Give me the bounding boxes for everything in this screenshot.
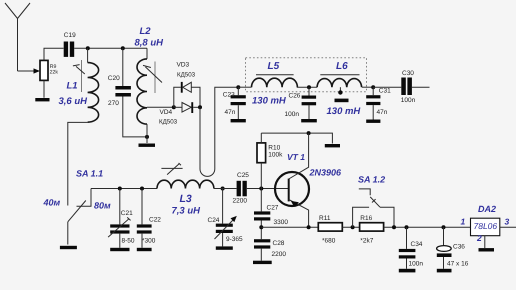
ground under C28: [253, 261, 272, 264]
svg-text:3,6 uH: 3,6 uH: [59, 96, 89, 107]
wire L6 to C31: [362, 86, 373, 88]
svg-text:100n: 100n: [285, 111, 300, 118]
transistor VT1: [275, 133, 342, 227]
svg-text:C20: C20: [108, 75, 120, 82]
wire L2 tap to diodes: [147, 106, 174, 108]
wire hairpin loop to filter: [200, 87, 238, 176]
svg-text:*300: *300: [142, 238, 156, 245]
electrolytic capacitor C36: [437, 227, 469, 269]
capacitor C19: [64, 32, 76, 57]
capacitor C26: [285, 87, 317, 119]
svg-text:47 x 16: 47 x 16: [447, 261, 469, 268]
svg-text:47n: 47n: [225, 109, 236, 116]
svg-text:КД503: КД503: [177, 72, 196, 79]
regulator DA2: [461, 204, 510, 243]
ground under C26: [301, 119, 317, 122]
svg-text:*2k7: *2k7: [360, 238, 373, 245]
capacitor C20: [108, 48, 147, 137]
ground top right of VT1: [325, 144, 340, 147]
node SA1.2 left: [351, 225, 355, 229]
svg-text:C24: C24: [208, 217, 220, 224]
svg-text:130 mH: 130 mH: [252, 96, 287, 107]
svg-text:R10: R10: [268, 144, 280, 151]
capacitor C27: [254, 189, 288, 228]
trimmer capacitor C21: [108, 189, 135, 248]
svg-text:L2: L2: [140, 26, 152, 37]
svg-text:2: 2: [476, 233, 482, 243]
wire C25 to VT1 base: [247, 188, 289, 190]
diode VD3: [177, 62, 196, 93]
svg-text:L5: L5: [268, 61, 280, 72]
ground under C23: [231, 119, 246, 122]
node R10/C27 junction: [259, 187, 263, 191]
capacitor C31: [366, 87, 391, 119]
wire C30 output: [412, 86, 430, 88]
wire bottom line to R11: [261, 226, 318, 228]
wire R16 to C34 to C36: [384, 226, 471, 228]
label 130 mH left: [252, 96, 287, 107]
wire L1 top lead: [87, 48, 89, 62]
wire DA2 output: [500, 226, 516, 228]
capacitor C23: [223, 87, 246, 119]
ground under R9: [35, 98, 49, 101]
node C36: [442, 225, 446, 229]
wire top bus C19 to L2: [74, 47, 147, 49]
svg-text:C25: C25: [237, 172, 249, 179]
antenna: [5, 3, 30, 71]
svg-text:8,8 uH: 8,8 uH: [135, 38, 165, 49]
wire antenna to R9 wiper: [18, 68, 41, 73]
svg-text:100k: 100k: [268, 151, 283, 158]
ground under DA2: [479, 248, 495, 251]
switch SA1.1: [43, 168, 112, 244]
wire R9 top to bus: [44, 48, 64, 60]
svg-text:C26: C26: [289, 93, 301, 100]
svg-text:2200: 2200: [233, 198, 248, 205]
node C34: [405, 225, 409, 229]
switch SA1.2: [353, 174, 394, 227]
node C22: [140, 187, 144, 191]
wire R11 to R16: [342, 226, 359, 228]
svg-text:VD4: VD4: [160, 109, 173, 116]
svg-text:C27: C27: [267, 205, 279, 212]
capacitor C34: [399, 227, 424, 269]
ground under C34: [399, 269, 416, 273]
node C31: [371, 85, 375, 89]
svg-text:DA2: DA2: [478, 204, 496, 214]
svg-text:C22: C22: [149, 217, 161, 224]
svg-text:C28: C28: [273, 240, 285, 247]
svg-text:L1: L1: [67, 81, 78, 92]
dashed filter box: [246, 58, 367, 92]
node C21: [118, 187, 122, 191]
ground under C31: [366, 120, 380, 123]
svg-text:SA 1.2: SA 1.2: [358, 174, 385, 184]
svg-text:C30: C30: [402, 70, 414, 77]
ground under C22: [137, 248, 152, 251]
node C23 / L5 input: [236, 85, 240, 89]
diode VD4: [159, 102, 200, 125]
svg-text:L3: L3: [180, 193, 192, 205]
svg-text:9-365: 9-365: [226, 236, 243, 243]
svg-text:100n: 100n: [409, 261, 424, 268]
svg-text:7,3 uH: 7,3 uH: [172, 206, 202, 217]
wire VD3 branch left: [174, 87, 181, 107]
svg-text:2200: 2200: [272, 251, 287, 258]
ground under L2: [139, 144, 156, 147]
node C26: [307, 85, 311, 89]
inductor L3: [157, 163, 214, 217]
wire L5 to L6: [297, 86, 317, 88]
svg-text:C36: C36: [453, 244, 465, 251]
wire DA2 pin2 to ground: [484, 236, 486, 249]
wire 80m band line: [91, 188, 157, 190]
resistor R9: [40, 60, 58, 80]
svg-text:40м: 40м: [43, 197, 61, 207]
node L3 right / C24: [221, 187, 225, 191]
svg-text:78L06: 78L06: [474, 221, 498, 231]
svg-text:100n: 100n: [401, 97, 416, 104]
svg-text:L6: L6: [336, 61, 348, 72]
inductor L5: [252, 61, 298, 87]
svg-text:270: 270: [108, 100, 119, 107]
node emitter bottom: [307, 225, 311, 229]
wire R9 bottom: [43, 81, 45, 98]
inductor L1: [59, 60, 99, 122]
svg-text:C21: C21: [121, 210, 133, 217]
svg-text:C31: C31: [379, 88, 391, 95]
svg-text:130 mH: 130 mH: [327, 106, 362, 117]
ground under SA1.1: [60, 246, 77, 249]
svg-text:22k: 22k: [50, 70, 59, 76]
ground under C36: [437, 269, 452, 273]
svg-text:*680: *680: [322, 238, 336, 245]
node diode right: [198, 105, 202, 109]
wire L2 bottom to ground: [146, 124, 148, 143]
wire R10 top to collector and ground: [261, 133, 332, 143]
svg-text:47n: 47n: [377, 109, 388, 116]
node C27/C28 bottom line: [259, 225, 263, 229]
svg-text:2N3906: 2N3906: [309, 168, 343, 178]
ground under C24: [216, 246, 233, 249]
svg-text:3300: 3300: [274, 219, 289, 226]
node diode left: [172, 105, 176, 109]
inductor L2: [135, 26, 165, 124]
svg-text:VT 1: VT 1: [287, 152, 305, 162]
wire L1 bottom to SA1.1: [68, 122, 88, 205]
svg-text:КД503: КД503: [159, 119, 178, 126]
variable capacitor C24: [208, 189, 244, 247]
resistor R16: [360, 215, 384, 245]
inductor L6: [317, 61, 361, 87]
svg-text:C19: C19: [64, 32, 76, 39]
node C20 top: [121, 46, 125, 50]
wire C31 to C30: [373, 86, 401, 88]
L6 tap to chassis: [335, 87, 349, 102]
label 130 mH right: [327, 106, 362, 117]
resistor R10: [257, 133, 283, 188]
svg-text:8-50: 8-50: [122, 238, 135, 245]
svg-text:1: 1: [461, 216, 466, 226]
resistor R11: [318, 215, 342, 245]
svg-text:C34: C34: [411, 241, 423, 248]
node L2 bottom / C20: [145, 135, 149, 139]
svg-text:80м: 80м: [94, 201, 111, 211]
node L1 top: [86, 46, 90, 50]
ground under C21: [110, 248, 129, 251]
capacitor C28: [254, 227, 286, 261]
node SA1.2 right: [392, 225, 396, 229]
wire VD3 branch right: [191, 87, 200, 107]
capacitor C22: [137, 189, 162, 248]
capacitor C30: [401, 70, 416, 104]
wire L3 to C25: [214, 188, 237, 190]
svg-text:R16: R16: [360, 215, 372, 222]
svg-text:SA 1.1: SA 1.1: [76, 168, 103, 178]
svg-text:VD3: VD3: [177, 62, 190, 69]
wire into L5: [238, 86, 251, 88]
svg-text:R11: R11: [319, 215, 331, 222]
capacitor C25: [233, 172, 250, 205]
svg-text:3: 3: [505, 216, 510, 226]
node collector top: [307, 131, 311, 135]
svg-text:C23: C23: [223, 91, 235, 98]
